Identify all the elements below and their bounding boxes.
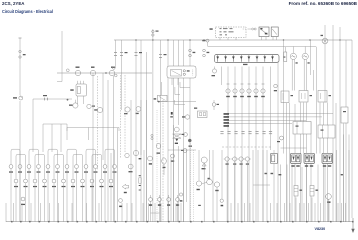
lamp E11 <box>103 165 107 173</box>
horn H2 <box>302 53 310 63</box>
connector pair X3 <box>114 53 117 56</box>
resistor R2 tall <box>310 186 318 197</box>
wire stubs under relays <box>220 37 277 41</box>
wire lamp stem 5 <box>47 151 49 222</box>
terminal mark T47 <box>170 112 173 118</box>
wire comb 22 <box>249 203 251 222</box>
wire comb 14 <box>148 203 150 222</box>
device small right <box>277 136 284 142</box>
wire comb 6 <box>58 203 60 222</box>
wire v46 <box>328 200 330 223</box>
lamp E22 <box>33 179 37 187</box>
wire v1 <box>97 76 99 170</box>
terminal strip TB1 <box>224 113 230 127</box>
wire loop 3 <box>48 149 58 151</box>
fuse F3 <box>232 55 235 62</box>
lamp E24 <box>52 179 56 187</box>
alternator G1 <box>321 35 328 44</box>
lamp E47 <box>171 154 175 162</box>
device B1 <box>212 67 217 77</box>
lamp E1 <box>9 165 13 173</box>
wire vertical m3 <box>140 40 142 155</box>
wire lamp stem 9 <box>85 151 87 222</box>
wire v27 <box>221 150 223 199</box>
wire comb 13 <box>142 203 144 222</box>
wire comb 9 <box>98 203 100 222</box>
wire horiz 1 <box>67 99 76 103</box>
wire lamp stem 12 <box>114 151 116 222</box>
fuse F6 <box>256 55 259 62</box>
fuse F5 <box>248 55 251 62</box>
wire v20 <box>190 144 192 223</box>
wire v17 <box>178 146 180 222</box>
wire branch bus <box>33 98 72 100</box>
ignition switch S4 <box>173 127 181 144</box>
device E45 <box>179 193 182 202</box>
connector pair X7 above bus <box>152 30 159 36</box>
label 17 20 pair <box>265 173 274 174</box>
wire comb 33 <box>337 203 339 222</box>
box right small 3 <box>318 91 331 103</box>
wire lamp2 stem 11 <box>110 156 112 222</box>
device B3 <box>274 84 278 91</box>
wire lamp stem 2 <box>19 151 21 222</box>
relay K5 box <box>271 27 278 37</box>
lamp E26 <box>71 179 75 187</box>
wire v22 <box>198 150 200 180</box>
label right 3 <box>341 174 343 175</box>
lamp E7 <box>65 165 69 173</box>
relay K4 box with contacts <box>259 27 269 37</box>
wire comb 23 <box>270 203 272 222</box>
wire mid horizontal a <box>157 101 196 102</box>
wire lamp2 stem 2 <box>25 156 27 222</box>
connector X11 round <box>233 84 237 97</box>
relay block K10 <box>322 153 333 166</box>
wire comb 31 <box>320 203 322 222</box>
wire loop2 4 <box>73 154 83 156</box>
wire v26 <box>216 187 218 222</box>
fuse F8 <box>271 55 274 62</box>
wire left bus <box>57 72 152 74</box>
wire vertical r22 <box>351 40 353 218</box>
wire comb 1 <box>13 203 15 222</box>
wire v36 <box>273 150 275 222</box>
wire lamp stem 7 <box>66 151 68 222</box>
wire drop A <box>32 99 34 152</box>
wire v39 <box>291 165 293 223</box>
motor M7 <box>326 194 332 203</box>
wire drop B <box>42 124 44 152</box>
switch S3 terminal 50 <box>109 67 115 76</box>
junction dots top bus <box>135 39 340 40</box>
wire vertical r0 <box>277 61 279 222</box>
wire horiz join2 <box>42 123 44 125</box>
wire vertical m8 <box>173 40 175 222</box>
wire v19 <box>186 150 188 202</box>
dashed link mid <box>222 146 272 148</box>
wire fuse drop 3 <box>241 67 243 223</box>
wire lamp stem 11 <box>104 151 106 222</box>
fuse box F <box>215 55 280 66</box>
header title <box>2 9 53 14</box>
wire link dashes <box>243 28 251 30</box>
wire v42 <box>306 165 308 223</box>
wire vertical r20 <box>310 40 312 75</box>
wire vertical r3 <box>289 103 291 222</box>
wire drop C <box>51 124 53 152</box>
svg-text:V8230: V8230 <box>315 227 326 231</box>
label right 38 <box>279 174 282 175</box>
wire v38 <box>286 165 288 223</box>
wire v18 <box>183 150 185 222</box>
wire fuse drop 2 <box>234 67 236 223</box>
wire v25 <box>212 150 214 222</box>
fuse F2 <box>224 55 227 62</box>
relay block K11 partial <box>271 153 278 163</box>
lamp E10 <box>94 165 98 173</box>
wire vertical r6 <box>303 103 305 154</box>
connector X10 round <box>226 84 230 97</box>
wire vertical r9 <box>313 70 315 91</box>
ground arrow right <box>351 218 354 233</box>
wire vertical r7 <box>306 103 308 223</box>
box instrument right <box>293 122 311 135</box>
connector row ticks <box>220 132 272 134</box>
wire v35 <box>266 150 268 222</box>
device M2 <box>94 107 102 112</box>
connector X1 <box>19 50 26 58</box>
wire lamp2 stem 1 <box>15 156 17 222</box>
wire v29 <box>234 161 236 222</box>
lighter device E46 <box>212 100 219 110</box>
wire comb 25 <box>284 203 286 222</box>
lamp E33 <box>21 197 25 205</box>
lamp E29 <box>100 179 104 187</box>
wire comb 12 <box>131 203 133 222</box>
wire vertical r17 <box>339 27 341 222</box>
clock K1 terminal 30 <box>13 96 23 101</box>
wire comb 32 <box>328 203 330 222</box>
wire lamp2 stem 9 <box>91 156 93 222</box>
lamp E27 <box>81 179 85 187</box>
connector pair X14 <box>252 28 257 30</box>
lamp E52 <box>238 157 245 165</box>
wire comb 27 <box>299 203 301 222</box>
device B4 <box>182 115 190 119</box>
lamp E53 <box>244 157 251 165</box>
wire vertical r21 <box>348 135 350 223</box>
wire loop 4 <box>67 149 77 151</box>
control unit U1 dashed box <box>210 27 247 38</box>
wire v16 <box>173 125 175 222</box>
wire v15 <box>167 150 169 222</box>
device E49 <box>181 149 187 153</box>
wire loop2 2 <box>35 154 45 156</box>
device M3 <box>124 107 130 114</box>
header reference numbers <box>289 1 357 6</box>
label terminal 42 <box>198 205 201 206</box>
wire mid horizontal d <box>281 147 307 149</box>
wire fan from strip <box>229 114 333 124</box>
wire vertical r18 <box>343 135 345 223</box>
wiper motor cluster M6 <box>196 178 219 191</box>
box instrument right 2 <box>318 125 335 138</box>
relay block K9 <box>304 153 315 166</box>
wire vertical r13 <box>324 25 326 103</box>
box right tall <box>341 107 348 123</box>
relay block K8 <box>291 153 302 166</box>
wire v7 <box>130 100 132 222</box>
wire lamp2 stem 4 <box>44 156 46 222</box>
header model code <box>2 1 24 6</box>
lamp E4 <box>37 165 41 173</box>
lamp E51 <box>231 157 238 165</box>
wire loop 5 <box>86 149 96 151</box>
wire fuse drop 8 <box>221 67 223 86</box>
wire vertical m4 <box>146 52 148 222</box>
lamp E6 <box>56 165 60 173</box>
wire loop2 1 <box>16 154 26 156</box>
lamp E30 <box>109 179 113 187</box>
wire branch bus 3 <box>67 128 119 132</box>
device M3b <box>136 107 141 115</box>
small devices above ground <box>149 195 180 222</box>
connector X15 round <box>261 84 265 97</box>
wire v0 <box>92 73 94 222</box>
wire lamp2 stem 5 <box>53 156 55 222</box>
wire comb 15 <box>154 203 156 222</box>
lamp E25 <box>62 179 66 187</box>
connector pair X6 <box>159 54 167 58</box>
wire fuse drop 4 <box>248 67 250 223</box>
ground bus <box>6 221 353 223</box>
wire vertical m2 <box>135 40 137 222</box>
device E44 <box>220 199 223 206</box>
fuse F7 <box>263 55 266 62</box>
wire v48 <box>343 124 345 223</box>
junction dot J2 <box>113 67 118 77</box>
wire comb 19 <box>230 203 232 222</box>
wire sub bus <box>208 46 316 48</box>
wire lamp stem 6 <box>57 151 59 222</box>
relay K3 box <box>167 66 196 78</box>
wire comb 34 <box>341 203 343 222</box>
wire v43 <box>311 198 313 223</box>
wire vertical m1 <box>121 40 123 110</box>
wire comb 2 <box>21 203 23 222</box>
wire lamp stem 3 <box>28 151 30 222</box>
lamp E9 <box>84 165 88 173</box>
arrow connector <box>122 184 129 193</box>
wire v23 <box>203 164 205 223</box>
wire v28 <box>226 161 228 222</box>
wire comb 26 <box>289 203 291 222</box>
device E48 <box>182 133 188 137</box>
lamp E00 oval <box>156 143 160 154</box>
wire loop2 5 <box>92 154 102 156</box>
wire v9 <box>143 150 145 222</box>
lamp E23 <box>43 179 47 187</box>
relay K7 box <box>194 108 207 118</box>
wire battery feed left <box>19 38 22 222</box>
wire v44 <box>317 165 319 223</box>
drawing number text <box>315 227 326 231</box>
wire vertical m10 <box>183 40 185 222</box>
wire vertical r4 <box>294 104 296 222</box>
wire vertical m9 <box>178 40 180 125</box>
lamp E40 <box>128 164 133 172</box>
wire vertical r12 <box>323 103 325 223</box>
wire fuse drop 6 <box>262 67 264 223</box>
wire comb 18 <box>180 203 182 222</box>
wire loop2 3 <box>54 154 64 156</box>
wire lamp2 stem 10 <box>101 156 103 222</box>
wire v5 <box>120 75 122 158</box>
wire vertical r5 <box>300 103 302 223</box>
wire loop 1 <box>11 149 20 151</box>
wire comb 24 <box>276 203 278 222</box>
wire v45 <box>324 165 326 223</box>
wire lamp stem 4 <box>38 151 40 222</box>
wire comb 10 <box>121 203 123 222</box>
fuse F1 <box>216 55 219 62</box>
wire v32 <box>252 150 254 222</box>
wire vertical m5 <box>152 29 154 222</box>
wire comb 0 <box>5 203 7 222</box>
wire comb 21 <box>244 203 246 222</box>
connector X14 round <box>254 84 258 97</box>
junction node J1 <box>66 69 106 74</box>
wire v3 <box>107 80 109 222</box>
connector pair X9 on wire <box>203 49 210 57</box>
wire comb 8 <box>86 203 88 222</box>
switch S2 terminal 15 <box>90 67 95 76</box>
wire v2 <box>102 73 104 160</box>
lamp E41b <box>125 153 129 157</box>
wire v24 <box>209 150 211 179</box>
wire v21 <box>193 150 195 222</box>
wire loop 2 <box>29 149 39 151</box>
connector strip X12 <box>283 47 287 62</box>
wire v13 <box>156 110 158 222</box>
wire vertical m0 <box>115 40 117 68</box>
lamp E2 <box>18 165 22 173</box>
wire v30 <box>240 161 242 222</box>
wire lamp2 stem 7 <box>72 156 74 222</box>
wire vertical r2 <box>286 103 288 222</box>
wire v12 <box>170 158 172 222</box>
wire corner pair right of S5 <box>175 82 190 95</box>
wire comb 20 <box>237 203 239 222</box>
wire loop 6 <box>105 149 115 151</box>
wire drop E <box>66 124 68 140</box>
wire v14 <box>162 100 164 222</box>
wire comb 35 <box>345 203 347 222</box>
wire lamp stem 10 <box>95 151 97 222</box>
wire vertical r14 <box>327 103 329 223</box>
wire v34 <box>262 150 264 222</box>
wire lamp2 stem 8 <box>82 156 84 222</box>
relay K2 box <box>70 81 86 104</box>
wire vertical r10 <box>315 47 317 154</box>
wire v47 <box>336 150 338 222</box>
horn H1 <box>290 53 298 63</box>
connector pair X5 <box>135 52 143 56</box>
wire mid horizontal c <box>253 184 270 186</box>
lamp E3 <box>27 165 31 173</box>
wire v33 <box>257 150 259 222</box>
ground bus junction dots <box>11 221 354 223</box>
wire v40 <box>295 198 297 223</box>
wire lamp stem 1 <box>10 151 12 222</box>
lamp E42 <box>148 156 153 164</box>
wire v8 <box>140 100 142 222</box>
lamp E28 <box>90 179 94 187</box>
device dark E0 <box>188 139 192 147</box>
wire branch bus 2 <box>43 123 67 125</box>
wire v41 <box>301 167 303 222</box>
wire v49 <box>348 150 350 222</box>
wire comb 5 <box>49 203 51 222</box>
wire comb 4 <box>40 203 42 222</box>
connector X13 round <box>247 84 251 97</box>
box right small 2 <box>299 91 312 103</box>
lamp E5 <box>46 165 50 173</box>
wire vertical m6 <box>160 40 162 222</box>
wire v37 <box>280 165 282 223</box>
wire lamp stem 8 <box>76 151 78 222</box>
device M4 <box>87 104 95 108</box>
connector column ticks <box>139 175 142 190</box>
wire stubs under K3 <box>172 78 178 85</box>
motor M5 with bulb <box>201 157 207 169</box>
wire vertical r16 <box>335 103 337 222</box>
wire vertical r15 <box>332 25 334 222</box>
switch S5 box <box>154 82 167 102</box>
wire v6 <box>124 75 126 152</box>
wire comb 11 <box>126 203 128 222</box>
connector pair X8 on wire <box>189 49 196 57</box>
wire comb 28 <box>303 203 305 222</box>
wire corner right mid <box>175 100 186 105</box>
wire drop D <box>60 124 62 152</box>
wire vertical m7 <box>167 40 169 150</box>
wire stub corner left <box>57 31 62 82</box>
wire fuse drop 1 <box>227 67 229 223</box>
connector pair X13 on line <box>151 134 153 139</box>
wire join small devices <box>151 212 160 214</box>
wire vertical r19 <box>345 40 347 222</box>
inline connector X2 <box>43 95 48 100</box>
wire right drop net <box>292 47 306 91</box>
device E50 <box>119 199 123 208</box>
wire mid horizontal b <box>168 149 196 151</box>
wire lamp2 stem 6 <box>63 156 65 222</box>
connector X12 round <box>240 84 244 97</box>
wire vertical r1 <box>283 40 285 154</box>
wire fuse drop 5 <box>255 67 257 223</box>
lamp E20 <box>14 179 18 187</box>
wire vertical r8 <box>310 122 312 223</box>
lamp E50 <box>224 157 231 165</box>
device M1 <box>69 103 78 108</box>
box right small 1 <box>281 91 293 103</box>
switch S1 terminal 30 <box>75 67 80 76</box>
device circle B5 <box>202 39 209 46</box>
lamp E41 <box>133 150 141 159</box>
wire v11 <box>117 128 119 222</box>
